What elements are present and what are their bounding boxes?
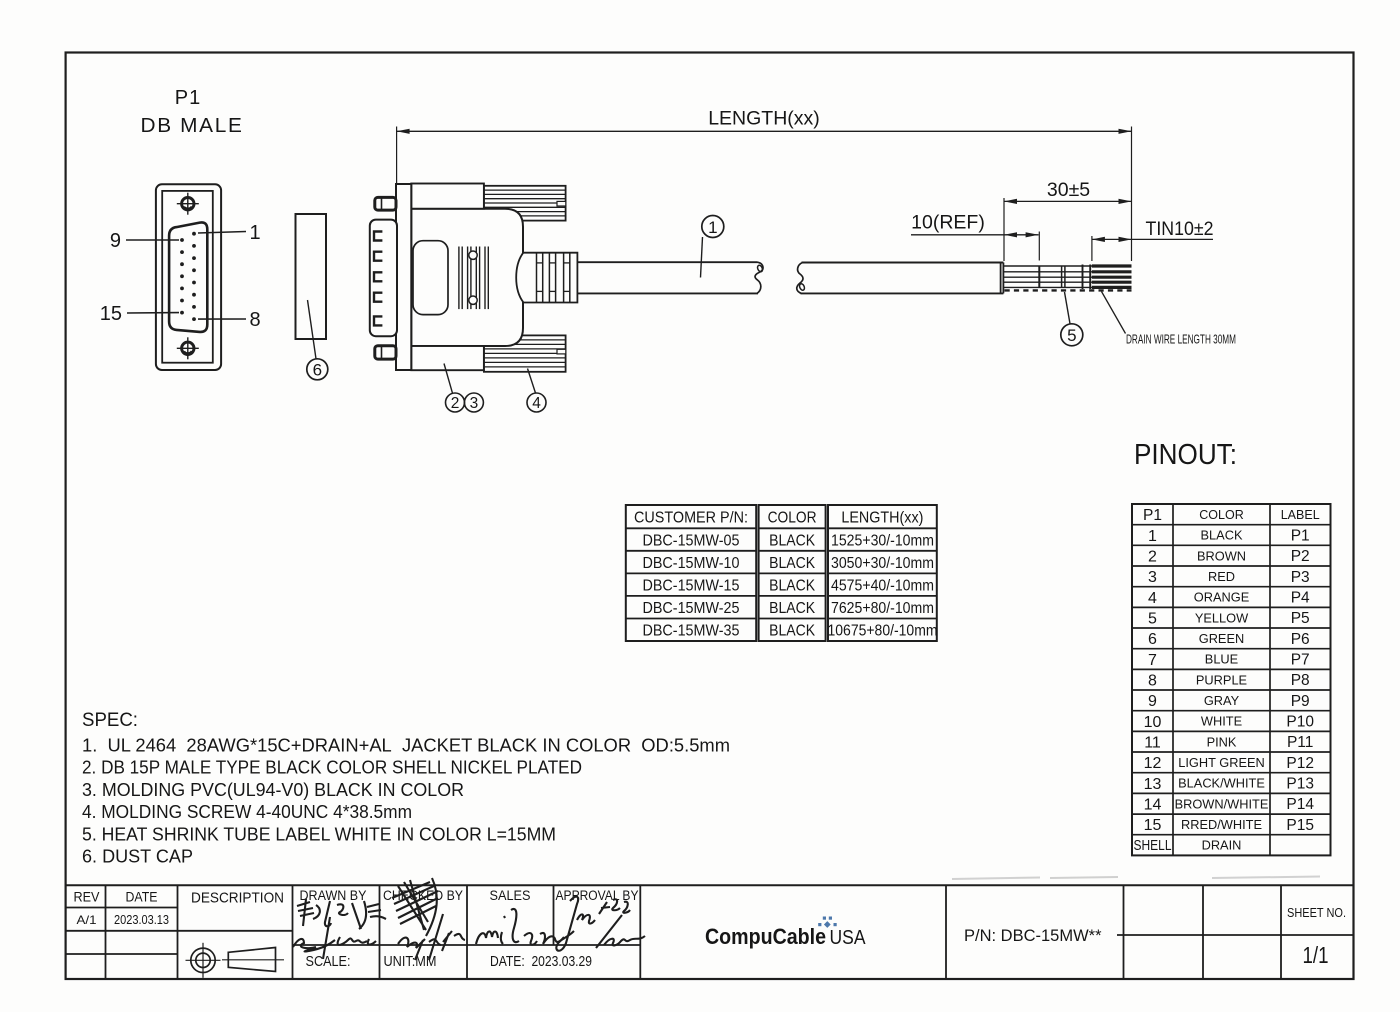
svg-text:SPEC:: SPEC: [82, 709, 138, 731]
svg-text:P14: P14 [1286, 796, 1314, 813]
svg-text:1: 1 [250, 222, 261, 244]
svg-text:BLUE: BLUE [1205, 652, 1238, 667]
svg-text:7: 7 [1148, 652, 1157, 669]
thumbscrew bottom [375, 346, 396, 359]
svg-text:P10: P10 [1286, 714, 1314, 731]
svg-text:SALES: SALES [490, 888, 531, 903]
svg-text:DB MALE: DB MALE [141, 115, 244, 137]
pinout table row lines [1132, 525, 1331, 835]
svg-text:DBC-15MW-10: DBC-15MW-10 [643, 555, 740, 572]
svg-text:3050+30/-10mm: 3050+30/-10mm [831, 555, 934, 572]
balloon 2 [446, 393, 465, 412]
svg-text:PURPLE: PURPLE [1196, 672, 1247, 687]
svg-text:BLACK: BLACK [769, 623, 815, 640]
svg-text:P7: P7 [1291, 652, 1310, 669]
svg-text:ORANGE: ORANGE [1194, 590, 1249, 605]
pins 1-8 (right column) [192, 232, 196, 321]
svg-text:P/N: DBC-15MW**: P/N: DBC-15MW** [964, 927, 1102, 945]
cable segment right [801, 263, 1004, 294]
svg-text:CUSTOMER P/N:: CUSTOMER P/N: [634, 510, 748, 527]
title block vertical dividers [106, 885, 1282, 978]
svg-text:DRAWN BY: DRAWN BY [300, 888, 367, 903]
svg-text:P2: P2 [1291, 548, 1310, 565]
svg-text:P5: P5 [1291, 610, 1310, 627]
svg-text:9: 9 [110, 230, 121, 252]
cable break left [755, 262, 763, 293]
svg-text:BLACK: BLACK [1201, 528, 1243, 543]
face plate [396, 184, 411, 370]
svg-text:4: 4 [532, 395, 541, 412]
balloon 1 [702, 216, 724, 238]
svg-text:DBC-15MW-25: DBC-15MW-25 [643, 600, 740, 617]
wire bundle dividers [1038, 266, 1040, 287]
30±5 dimension [1003, 198, 1005, 261]
svg-text:DRAIN: DRAIN [1202, 838, 1242, 853]
top boot block [411, 184, 484, 209]
svg-text:A/1: A/1 [77, 913, 97, 927]
svg-text:PINK: PINK [1207, 734, 1237, 749]
svg-text:COLOR: COLOR [1199, 508, 1243, 522]
title block top line [66, 884, 1354, 886]
svg-text:LIGHT GREEN: LIGHT GREEN [1178, 755, 1265, 770]
sales signature milan [476, 909, 564, 945]
svg-text:DBC-15MW-15: DBC-15MW-15 [643, 578, 740, 595]
svg-text:14: 14 [1144, 797, 1162, 814]
pin 15 leader and label [127, 312, 179, 314]
third angle projection symbol cone [222, 948, 284, 972]
svg-text:P12: P12 [1286, 755, 1314, 772]
customer table column 1 box [626, 505, 937, 641]
svg-text:COLOR: COLOR [768, 510, 817, 527]
pin 8 leader and label [198, 318, 246, 320]
svg-text:WHITE: WHITE [1201, 714, 1242, 729]
svg-text:LENGTH(xx): LENGTH(xx) [708, 108, 820, 130]
D-sub insert shape [169, 222, 207, 332]
svg-text:RRED/WHITE: RRED/WHITE [1181, 817, 1262, 832]
svg-text:BLACK: BLACK [769, 555, 815, 572]
svg-text:1. UL 2464 28AWG*15C+DRAIN+A: 1. UL 2464 28AWG*15C+DRAIN+AL JACKET BLA… [82, 735, 730, 756]
svg-text:5: 5 [1148, 611, 1157, 628]
svg-text:BLACK/WHITE: BLACK/WHITE [1178, 776, 1265, 791]
svg-text:1525+30/-10mm: 1525+30/-10mm [831, 533, 934, 550]
svg-text:4. MOLDING SCREW 4-40UNC 4*38.: 4. MOLDING SCREW 4-40UNC 4*38.5mm [82, 801, 412, 822]
third angle projection symbol circle [186, 943, 221, 978]
svg-text:11: 11 [1144, 735, 1161, 752]
checked by signature [392, 878, 465, 960]
balloon 4 [527, 393, 546, 412]
svg-text:P8: P8 [1291, 672, 1310, 689]
shell pins side view [374, 232, 382, 326]
svg-text:10(REF): 10(REF) [911, 211, 985, 233]
svg-text:GREEN: GREEN [1199, 631, 1245, 646]
svg-text:P6: P6 [1291, 631, 1310, 648]
balloon 5 leader [1065, 292, 1071, 324]
svg-text:P13: P13 [1286, 776, 1314, 793]
svg-text:REV: REV [74, 890, 100, 905]
screw bottom [177, 337, 199, 359]
svg-text:DBC-15MW-35: DBC-15MW-35 [643, 623, 740, 640]
svg-text:BLACK: BLACK [769, 533, 815, 550]
svg-text:6. DUST CAP: 6. DUST CAP [82, 846, 193, 867]
svg-text:P1: P1 [175, 87, 201, 109]
svg-text:1: 1 [708, 218, 717, 237]
svg-text:3. MOLDING PVC(UL94-V0) BLACK: 3. MOLDING PVC(UL94-V0) BLACK IN COLOR [82, 779, 464, 800]
drawn by signature [293, 899, 386, 959]
grip ribs [459, 247, 488, 310]
D-shell side [370, 220, 397, 337]
screw top [177, 193, 199, 215]
svg-text:10675+80/-10mm: 10675+80/-10mm [828, 623, 938, 640]
dust cap item 6 [296, 214, 327, 339]
tinned wire ends [1092, 266, 1132, 287]
jacket end [1000, 263, 1002, 294]
svg-text:BROWN/WHITE: BROWN/WHITE [1175, 796, 1269, 811]
customer table row lines [626, 528, 937, 618]
TIN10±2 dimension [1091, 236, 1093, 261]
svg-text:USA: USA [830, 927, 867, 949]
10(REF) dimension [1038, 232, 1040, 261]
drain wire leader [1102, 292, 1126, 334]
svg-text:UNIT:MM: UNIT:MM [384, 953, 437, 970]
bottom boot block [411, 346, 484, 370]
pin 1 leader and label [198, 232, 246, 234]
svg-text:3: 3 [1148, 569, 1157, 586]
svg-text:6: 6 [313, 361, 322, 380]
svg-text:P15: P15 [1286, 817, 1314, 834]
drain wire dashed [1005, 289, 1132, 291]
svg-text:5: 5 [1067, 326, 1076, 345]
svg-text:DBC-15MW-05: DBC-15MW-05 [643, 533, 740, 550]
approval signature [556, 897, 645, 951]
svg-text:DATE: 2023.03.29: DATE: 2023.03.29 [490, 953, 592, 970]
svg-text:10: 10 [1144, 714, 1162, 731]
stripped wire bundle [1003, 266, 1131, 287]
svg-text:5. HEAT SHRINK TUBE LABEL WHIT: 5. HEAT SHRINK TUBE LABEL WHITE IN COLOR… [82, 823, 556, 844]
heat shrink label item 5 [1061, 266, 1063, 287]
logo dot cross [818, 917, 837, 928]
connector inner face [162, 191, 213, 363]
svg-text:P3: P3 [1291, 569, 1310, 586]
pin 9 leader and label [126, 239, 179, 241]
bottom strain relief hatch [484, 335, 566, 371]
LENGTH(xx) dimension [397, 130, 1132, 132]
balloon 5 [1061, 324, 1083, 346]
scan ghost artifact above P/N cell [952, 877, 1320, 880]
cable exit nozzle [516, 253, 577, 303]
svg-text:4575+40/-10mm: 4575+40/-10mm [831, 578, 934, 595]
dust cap leader [308, 300, 317, 359]
svg-text:1: 1 [1148, 528, 1157, 545]
svg-text:DATE: DATE [126, 890, 158, 905]
svg-text:2. DB 15P MALE TYPE BLACK COLO: 2. DB 15P MALE TYPE BLACK COLOR SHELL NI… [82, 757, 582, 778]
svg-text:BLACK: BLACK [769, 578, 815, 595]
svg-text:SHELL: SHELL [1134, 838, 1172, 854]
LENGTH dimension extension lines [396, 127, 398, 184]
svg-text:P1: P1 [1291, 528, 1310, 545]
rib circles [469, 251, 477, 259]
pinout table column lines [1172, 504, 1174, 855]
svg-text:2: 2 [1148, 549, 1157, 566]
svg-text:P4: P4 [1291, 590, 1310, 607]
svg-text:RED: RED [1208, 569, 1235, 584]
svg-text:GRAY: GRAY [1204, 693, 1240, 708]
svg-text:2023.03.13: 2023.03.13 [114, 913, 169, 927]
connector outer flange [156, 184, 221, 370]
svg-text:8: 8 [250, 309, 261, 331]
svg-text:2: 2 [451, 395, 460, 412]
cable segment left [577, 262, 758, 293]
svg-text:LABEL: LABEL [1281, 508, 1320, 522]
svg-text:6: 6 [1148, 631, 1157, 648]
svg-text:12: 12 [1144, 755, 1162, 772]
svg-text:15: 15 [100, 303, 122, 325]
svg-text:YELLOW: YELLOW [1195, 610, 1249, 625]
top strain relief hatch [484, 186, 566, 221]
title block horizontal sub-lines [66, 908, 1354, 955]
balloon 3 [464, 393, 483, 412]
nozzle ridges [537, 253, 570, 303]
svg-text:P1: P1 [1143, 507, 1162, 524]
pins 9-15 (left column) [180, 238, 184, 314]
balloon 1 leader [701, 237, 703, 278]
svg-text:P9: P9 [1291, 693, 1310, 710]
svg-text:P11: P11 [1287, 734, 1313, 751]
balloon 4 leader [528, 369, 536, 394]
svg-text:SCALE:: SCALE: [306, 953, 351, 970]
svg-text:7625+80/-10mm: 7625+80/-10mm [831, 600, 934, 617]
svg-text:30±5: 30±5 [1047, 179, 1090, 201]
svg-text:PINOUT:: PINOUT: [1134, 439, 1237, 471]
svg-text:1/1: 1/1 [1303, 942, 1329, 968]
svg-text:15: 15 [1144, 817, 1162, 834]
svg-text:BROWN: BROWN [1197, 548, 1246, 563]
balloon 6 [307, 359, 328, 380]
svg-text:DESCRIPTION: DESCRIPTION [191, 890, 284, 907]
svg-text:13: 13 [1144, 776, 1162, 793]
balloon 2 leader [444, 364, 453, 394]
pinout table frame [1132, 504, 1331, 855]
thumbscrew top [375, 197, 396, 210]
svg-text:LENGTH(xx): LENGTH(xx) [841, 510, 923, 527]
svg-text:DRAIN WIRE LENGTH 30MM: DRAIN WIRE LENGTH 30MM [1126, 333, 1236, 347]
svg-text:3: 3 [470, 395, 479, 412]
svg-text:8: 8 [1148, 673, 1157, 690]
svg-text:SHEET NO.: SHEET NO. [1287, 905, 1346, 920]
svg-text:4: 4 [1148, 590, 1157, 607]
molded body [411, 209, 523, 346]
svg-text:BLACK: BLACK [769, 600, 815, 617]
svg-text:9: 9 [1148, 693, 1157, 710]
label recess on body [413, 241, 448, 315]
svg-text:TIN10±2: TIN10±2 [1146, 219, 1214, 240]
svg-text:CompuCable: CompuCable [705, 924, 826, 949]
cable break right [797, 263, 803, 294]
